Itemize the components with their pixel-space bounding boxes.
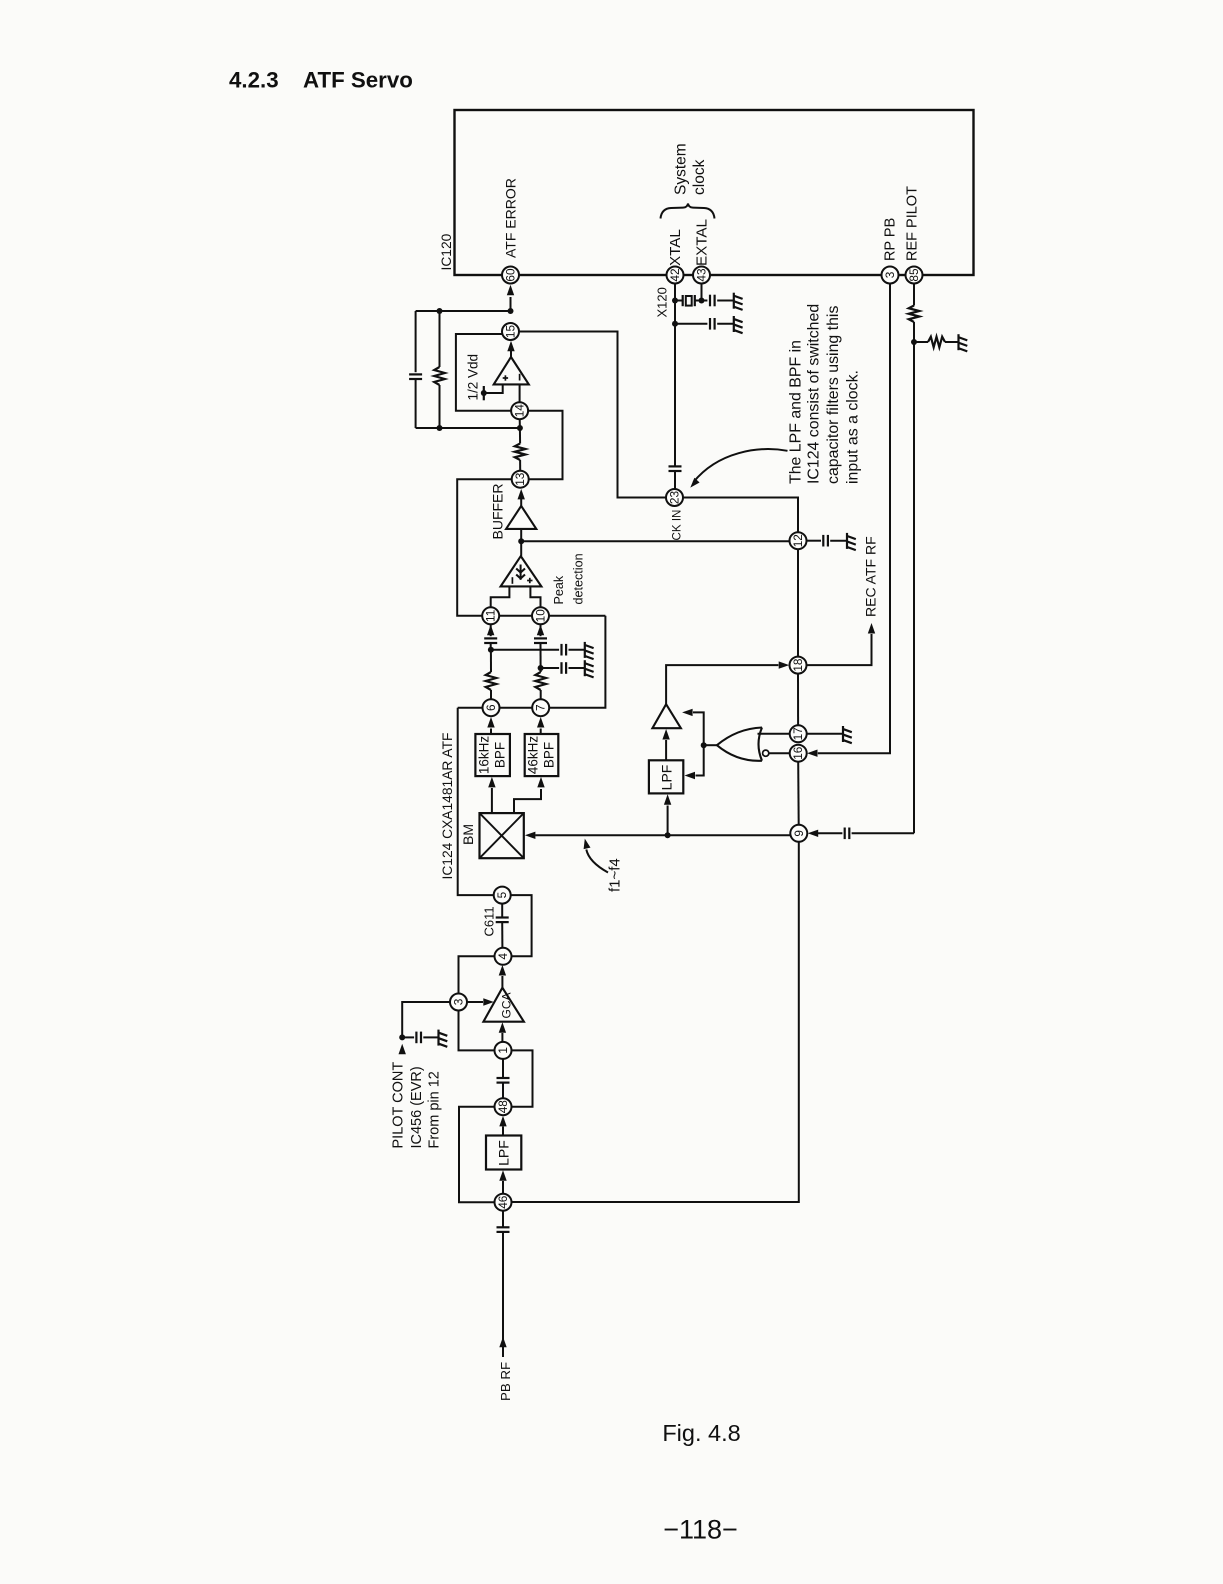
wire 46kBPF to pin7	[540, 729, 542, 735]
ground pin17	[842, 726, 844, 742]
pin 23 CK IN	[666, 489, 683, 506]
pin 48	[495, 1098, 512, 1115]
capacitor below pin46	[502, 1211, 504, 1228]
svg-text:BUFFER: BUFFER	[490, 484, 506, 540]
wire pin9 down to bottom rail	[512, 842, 799, 1202]
wire pin60 arrow from junction	[510, 297, 512, 311]
pin 42	[667, 267, 684, 284]
svg-text:10: 10	[534, 609, 548, 623]
pin 17	[790, 725, 807, 742]
f1~f4 pointer arrow	[586, 850, 608, 873]
wire pin10 row to pin7 row	[549, 616, 605, 708]
wire pin17 to ground	[807, 733, 843, 735]
pin 14	[511, 402, 528, 419]
wire amp out to pin18	[666, 665, 778, 704]
svg-text:42: 42	[668, 268, 682, 281]
svg-text:IC120: IC120	[439, 233, 454, 270]
node LPF feed junction	[665, 832, 671, 838]
wire pin16 to pin9	[797, 762, 800, 825]
wire pin43 down	[701, 284, 703, 301]
pin 5	[494, 887, 511, 904]
svg-text:BM: BM	[460, 824, 476, 845]
svg-text:REF PILOT: REF PILOT	[905, 186, 921, 261]
crystal X120	[682, 295, 684, 306]
svg-text:16: 16	[791, 746, 805, 760]
svg-text:capacitor filters using this: capacitor filters using this	[825, 306, 842, 484]
wire top rail	[416, 310, 511, 312]
svg-text:4: 4	[496, 953, 510, 960]
GCA amp	[483, 988, 524, 1022]
wire pin13 left down to pin11	[457, 479, 512, 616]
wire gate out to amp	[693, 712, 704, 745]
pin 46	[495, 1194, 512, 1211]
pin 9	[790, 825, 807, 842]
svg-text:48: 48	[496, 1100, 510, 1114]
node crystal junction	[672, 298, 678, 304]
capacitor xtal row1	[702, 300, 708, 302]
wire pins 11-10 row	[499, 615, 532, 617]
svg-text:IC124 CXA1481AR ATF: IC124 CXA1481AR ATF	[440, 733, 455, 880]
wire IC124 left edge	[458, 708, 494, 895]
wire pin14 right path to pin13	[528, 411, 562, 480]
pin 1	[495, 1042, 512, 1059]
REC ATF RF output arrow	[807, 634, 872, 665]
pin 3 GCA	[450, 994, 467, 1011]
svg-text:18: 18	[791, 658, 805, 672]
wire minus input to pin14	[519, 384, 521, 402]
svg-text:5: 5	[495, 891, 509, 898]
svg-text:7: 7	[534, 704, 548, 711]
half Vdd node	[483, 386, 485, 400]
svg-text:ATF Servo: ATF Servo	[303, 68, 413, 93]
wire pin85 column	[913, 284, 915, 306]
svg-text:BPF: BPF	[542, 742, 557, 768]
note pointer arrow	[694, 449, 788, 482]
ground pilot cont	[437, 1030, 439, 1046]
box LPF lower	[486, 1136, 521, 1170]
NOR gate	[759, 728, 763, 761]
wire LPF to amp	[665, 740, 667, 760]
pin 6	[483, 699, 500, 716]
svg-text:13: 13	[513, 472, 527, 486]
wire pin15 to CK IN corner	[519, 332, 666, 498]
svg-text:Fig. 4.8: Fig. 4.8	[662, 1420, 740, 1446]
wire pin4 left to pin3	[459, 956, 495, 993]
pin 43	[693, 267, 710, 284]
IC120 box	[455, 110, 974, 275]
node pin14 junction	[517, 425, 523, 431]
node rail-resistor junction	[437, 308, 443, 314]
svg-text:43: 43	[695, 268, 709, 282]
svg-text:6: 6	[484, 704, 498, 711]
pin 16	[790, 745, 807, 762]
capacitor to ground row1	[491, 649, 559, 651]
svg-text:−118−: −118−	[663, 1515, 738, 1545]
PB RF input arrow	[499, 1337, 506, 1348]
op-amp U1 half-Vdd	[494, 357, 529, 384]
wire buffer out to pin13	[520, 499, 522, 506]
wire 16kBPF to pin6	[490, 729, 492, 735]
svg-text:CK IN: CK IN	[671, 510, 684, 541]
resistor left vertical	[439, 311, 441, 367]
ground pin12	[846, 533, 848, 549]
svg-text:RP PB: RP PB	[882, 218, 898, 261]
System clock brace	[661, 204, 715, 219]
svg-text:clock: clock	[691, 159, 708, 195]
svg-text:11: 11	[484, 610, 498, 622]
svg-text:IC456 (EVR): IC456 (EVR)	[409, 1066, 425, 1148]
svg-text:The LPF and BPF in: The LPF and BPF in	[787, 340, 804, 484]
wire pin1 right loop to pin48	[512, 1050, 533, 1106]
pin 3	[882, 267, 899, 284]
pin 10	[532, 607, 549, 624]
wire pilot cont node	[402, 1002, 450, 1037]
pin 12	[790, 532, 807, 549]
capacitor xtal row2	[675, 323, 707, 325]
svg-text:X120: X120	[654, 287, 669, 317]
wire peak plus leg to pin10	[530, 586, 540, 607]
node pin11 junction	[488, 647, 494, 653]
svg-text:REC ATF RF: REC ATF RF	[863, 536, 879, 617]
wire pin23 to pin12	[683, 498, 798, 533]
resistor pin11-pin6	[490, 650, 492, 672]
buffer amp	[506, 506, 536, 529]
node buffer junction	[518, 538, 524, 544]
capacitor above CK IN	[669, 465, 682, 467]
wire pin6-pin7 row	[458, 707, 483, 709]
pin 4	[495, 948, 512, 965]
pin 11	[482, 607, 499, 624]
capacitor right of pin12	[807, 540, 822, 542]
BM mixer box	[480, 813, 524, 858]
svg-text:23: 23	[668, 491, 682, 505]
svg-text:1/2 Vdd: 1/2 Vdd	[466, 354, 481, 401]
node pin85 junction	[911, 339, 917, 345]
resistor pin14-pin13	[519, 428, 521, 444]
svg-text:detection: detection	[572, 553, 586, 604]
wire BM to 46kBPF	[514, 789, 541, 813]
svg-text:15: 15	[504, 325, 518, 339]
svg-text:LPF: LPF	[496, 1140, 512, 1166]
wire junction to pin12	[521, 540, 789, 542]
wire gate out to LPF	[696, 745, 704, 775]
capacitor to ground row2	[541, 667, 560, 669]
pin 85	[906, 267, 923, 284]
capacitor C611	[501, 904, 503, 918]
capacitor below pin10	[540, 624, 542, 636]
svg-text:input as a clock.: input as a clock.	[844, 370, 861, 484]
ground row2	[584, 660, 586, 676]
op-amp peak detector	[501, 556, 542, 586]
svg-text:4.2.3: 4.2.3	[229, 68, 279, 93]
svg-text:ATF ERROR: ATF ERROR	[502, 178, 518, 258]
svg-text:XTAL: XTAL	[667, 229, 684, 266]
svg-text:12: 12	[791, 534, 805, 547]
box 46kHz BPF	[525, 734, 559, 776]
ground xtal row2	[733, 316, 735, 332]
pin 13	[512, 471, 529, 488]
wire pin46 to LPF2	[502, 1181, 504, 1194]
wire BM to 16kBPF	[491, 788, 493, 813]
wire buffer in	[520, 529, 522, 556]
capacitor below pin11	[490, 624, 492, 636]
node bottom rail junction	[437, 425, 443, 431]
svg-text:16kHz: 16kHz	[477, 736, 492, 775]
ground pin85	[957, 334, 959, 350]
wire gate output	[704, 744, 717, 746]
svg-text:BPF: BPF	[493, 742, 508, 768]
svg-text:Peak: Peak	[552, 575, 566, 604]
svg-text:3: 3	[883, 271, 897, 278]
svg-text:IC124 consist of switched: IC124 consist of switched	[806, 304, 823, 484]
wire peak minus leg to pin11	[491, 586, 510, 607]
wire BM input f1-f4 line	[535, 834, 790, 836]
svg-text:f1~f4: f1~f4	[607, 858, 624, 892]
capacitor pin1-pin48	[502, 1059, 504, 1078]
wire pin5 right loop to pin4	[511, 895, 532, 956]
resistor pin10-pin7	[540, 668, 542, 672]
svg-text:17: 17	[791, 727, 805, 740]
svg-text:3: 3	[452, 998, 466, 1005]
wire pin18 to pin17	[797, 674, 799, 726]
wire GCA out to pin4	[501, 976, 503, 988]
svg-text:46: 46	[496, 1195, 510, 1209]
pilot cont label arrow	[399, 1044, 406, 1055]
wire LPF2 to pin48	[502, 1127, 504, 1136]
svg-text:LPF: LPF	[658, 765, 674, 791]
wire pin3 into GCA	[467, 1001, 483, 1003]
svg-text:C611: C611	[482, 906, 497, 936]
svg-text:9: 9	[792, 830, 806, 837]
wire pin12 to pin18	[797, 549, 799, 656]
svg-text:PB RF: PB RF	[498, 1362, 513, 1401]
wire pin48 left to pin46	[459, 1107, 495, 1203]
wire pin42 down	[674, 284, 676, 467]
capacitor left vertical	[415, 311, 417, 372]
node xtal row2 junction	[672, 321, 678, 327]
svg-text:46kHz: 46kHz	[526, 736, 541, 775]
pin 7	[532, 699, 549, 716]
ground xtal row1	[733, 293, 735, 309]
svg-text:From pin 12: From pin 12	[427, 1071, 443, 1148]
pin 18	[790, 657, 807, 674]
wire pin1 into GCA	[501, 1033, 503, 1042]
capacitor pilot cont	[402, 1036, 414, 1038]
node junction top rail	[508, 308, 514, 314]
wire junction to LPF	[667, 806, 669, 836]
wire pin14 down	[519, 419, 521, 428]
svg-text:System: System	[673, 143, 690, 195]
box 16kHz BPF	[475, 734, 510, 776]
wire bottom rail	[416, 427, 520, 429]
svg-text:GCA: GCA	[500, 992, 514, 1018]
wire feedback box pin15 to pin14	[456, 334, 511, 411]
capacitor right of pin9	[818, 832, 842, 834]
svg-text:PILOT CONT: PILOT CONT	[391, 1062, 407, 1149]
resistor to ground pin85	[914, 341, 928, 343]
svg-text:85: 85	[907, 268, 921, 282]
node pin10 junction	[538, 665, 544, 671]
wire rp pb to pin16	[818, 284, 890, 754]
box LPF right	[649, 760, 683, 793]
wire pin3 down to pin1	[459, 1011, 495, 1051]
pin 60	[502, 267, 519, 284]
svg-text:14: 14	[513, 404, 527, 418]
ground row1	[584, 642, 586, 658]
svg-text:1: 1	[496, 1047, 510, 1054]
amp triangle	[652, 704, 681, 728]
pin 15	[502, 323, 519, 340]
wire opamp out to pin15	[510, 351, 512, 357]
svg-text:EXTAL: EXTAL	[693, 219, 710, 266]
node pilot cont	[399, 1034, 405, 1040]
node pin43 junction	[699, 298, 705, 304]
svg-text:60: 60	[504, 268, 518, 282]
